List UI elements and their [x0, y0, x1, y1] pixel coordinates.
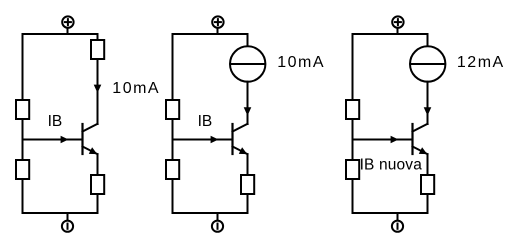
- svg-text:10mA: 10mA: [112, 80, 160, 97]
- wire top3: [353, 33, 428, 35]
- svg-text:IB: IB: [198, 113, 213, 130]
- transistor Q2: [233, 124, 248, 154]
- wire base1: [23, 139, 83, 141]
- wire emitter2: [247, 154, 249, 175]
- arrow current3: [424, 107, 432, 115]
- terminal VCC1 (plus): [62, 16, 73, 27]
- wire right-top3: [427, 34, 429, 47]
- wire bottom3: [353, 212, 428, 214]
- wire collector2: [247, 82, 249, 124]
- svg-text:10mA: 10mA: [277, 54, 325, 71]
- wire bottom1: [23, 212, 98, 214]
- wire stem GND2: [217, 212, 219, 221]
- wire stem VCC1: [67, 28, 69, 35]
- wire stem GND1: [67, 212, 69, 221]
- current source I2: [410, 46, 445, 81]
- arrow current1: [94, 85, 102, 93]
- terminal VCC2 (plus): [212, 16, 223, 27]
- arrow current2: [244, 107, 252, 115]
- resistor R9: [346, 160, 359, 179]
- transistor Q1: [83, 124, 98, 154]
- transistor Q3: [413, 124, 428, 154]
- arrow IB3: [391, 136, 399, 143]
- arrow IB2: [211, 136, 219, 143]
- arrow IB1: [61, 136, 69, 143]
- wire base2: [173, 139, 233, 141]
- wire stem GND3: [397, 212, 399, 221]
- terminal VCC3 (plus): [392, 16, 403, 27]
- svg-text:12mA: 12mA: [457, 54, 505, 71]
- wire right-bottom1: [97, 194, 99, 213]
- resistor R10: [421, 175, 434, 194]
- svg-text:IB: IB: [48, 113, 63, 130]
- terminal GND1: [62, 221, 73, 232]
- resistor R1: [16, 100, 29, 119]
- wire left1: [22, 34, 24, 213]
- resistor R7: [241, 175, 254, 194]
- terminal GND2: [212, 221, 223, 232]
- wire stem VCC2: [217, 28, 219, 35]
- wire top2: [173, 33, 248, 35]
- resistor R3: [91, 40, 104, 59]
- svg-text:IB nuova: IB nuova: [360, 156, 423, 173]
- wire collector3: [427, 82, 429, 124]
- resistor R6: [166, 160, 179, 179]
- wire right-bottom3: [427, 194, 429, 213]
- wire emitter3: [427, 154, 429, 175]
- wire bottom2: [173, 212, 248, 214]
- wire left3: [352, 34, 354, 213]
- wire emitter1: [97, 154, 99, 175]
- wire collector1: [97, 59, 99, 124]
- resistor R5: [166, 100, 179, 119]
- wire left2: [172, 34, 174, 213]
- resistor R2: [16, 160, 29, 179]
- wire right-top1: [97, 34, 99, 40]
- current source I1: [230, 46, 265, 81]
- wire base3: [353, 139, 413, 141]
- resistor R4: [91, 175, 104, 194]
- terminal GND3: [392, 221, 403, 232]
- wire top1: [23, 33, 98, 35]
- wire stem VCC3: [397, 28, 399, 35]
- wire right-top2: [247, 34, 249, 47]
- wire right-bottom2: [247, 194, 249, 213]
- resistor R8: [346, 100, 359, 119]
